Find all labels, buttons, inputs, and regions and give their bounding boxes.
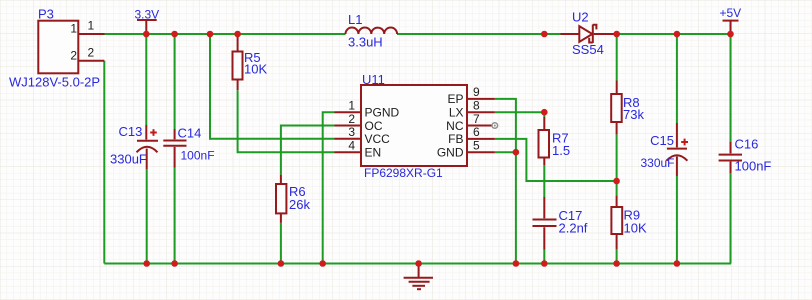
svg-text:330uF: 330uF: [110, 152, 147, 167]
svg-text:C14: C14: [178, 126, 202, 141]
svg-text:OC: OC: [365, 119, 383, 133]
svg-text:2: 2: [348, 112, 355, 126]
svg-text:FB: FB: [448, 132, 463, 146]
svg-text:26k: 26k: [289, 197, 310, 212]
svg-text:10K: 10K: [244, 62, 267, 77]
svg-text:1.5: 1.5: [552, 143, 570, 158]
svg-text:4: 4: [348, 139, 355, 153]
svg-text:1: 1: [348, 99, 355, 113]
svg-text:L1: L1: [348, 12, 362, 27]
svg-text:3: 3: [348, 125, 355, 139]
svg-text:LX: LX: [449, 106, 464, 120]
svg-text:100nF: 100nF: [735, 159, 772, 174]
svg-text:EP: EP: [447, 92, 463, 106]
svg-text:2.2nf: 2.2nf: [559, 221, 588, 236]
svg-text:C16: C16: [735, 137, 759, 152]
svg-text:C13: C13: [119, 124, 143, 139]
svg-text:SS54: SS54: [572, 42, 604, 57]
svg-text:PGND: PGND: [365, 106, 400, 120]
svg-text:C15: C15: [650, 133, 674, 148]
svg-text:3.3uH: 3.3uH: [348, 35, 383, 50]
svg-text:NC: NC: [446, 119, 464, 133]
svg-text:5: 5: [473, 139, 480, 153]
svg-text:P3: P3: [38, 7, 54, 22]
svg-text:U2: U2: [572, 10, 589, 25]
svg-text:2: 2: [88, 46, 95, 60]
svg-text:WJ128V-5.0-2P: WJ128V-5.0-2P: [9, 75, 100, 90]
svg-text:FP6298XR-G1: FP6298XR-G1: [364, 166, 443, 180]
svg-text:8: 8: [473, 99, 480, 113]
svg-text:U11: U11: [362, 72, 385, 87]
svg-text:EN: EN: [365, 146, 382, 160]
svg-text:6: 6: [473, 125, 480, 139]
svg-text:9: 9: [473, 85, 480, 99]
svg-text:3.3V: 3.3V: [135, 7, 160, 21]
svg-text:100nF: 100nF: [181, 149, 215, 163]
svg-text:10K: 10K: [624, 221, 647, 236]
svg-text:73k: 73k: [623, 107, 644, 122]
svg-text:7: 7: [473, 112, 480, 126]
svg-text:1: 1: [70, 22, 77, 36]
svg-text:1: 1: [88, 19, 95, 33]
svg-text:+5V: +5V: [720, 6, 742, 20]
svg-text:2: 2: [70, 49, 77, 63]
svg-text:330uF: 330uF: [640, 156, 674, 170]
svg-text:VCC: VCC: [365, 132, 391, 146]
svg-text:GND: GND: [437, 146, 464, 160]
